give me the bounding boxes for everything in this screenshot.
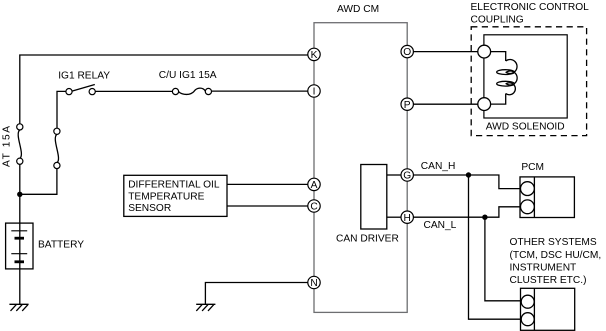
svg-text:H: H <box>404 213 411 224</box>
svg-text:(TCM, DSC HU/CM,: (TCM, DSC HU/CM, <box>510 250 602 261</box>
svg-text:BATTERY: BATTERY <box>38 239 84 250</box>
svg-text:COUPLING: COUPLING <box>471 14 524 25</box>
svg-text:CAN DRIVER: CAN DRIVER <box>336 233 399 244</box>
svg-text:SENSOR: SENSOR <box>128 203 171 214</box>
svg-text:CAN_H: CAN_H <box>421 161 456 172</box>
svg-text:G: G <box>403 171 411 182</box>
svg-text:CAN_L: CAN_L <box>424 220 457 231</box>
svg-text:AWD CM: AWD CM <box>337 4 379 15</box>
svg-text:IG1 RELAY: IG1 RELAY <box>58 70 110 81</box>
svg-text:C/U IG1 15A: C/U IG1 15A <box>159 70 217 81</box>
svg-text:CLUSTER ETC.): CLUSTER ETC.) <box>510 275 587 286</box>
svg-text:C: C <box>310 202 317 213</box>
svg-text:N: N <box>310 278 317 289</box>
svg-text:I: I <box>313 87 316 98</box>
svg-text:P: P <box>404 100 411 111</box>
svg-text:OTHER SYSTEMS: OTHER SYSTEMS <box>510 237 597 248</box>
svg-text:PCM: PCM <box>521 162 544 173</box>
svg-text:K: K <box>311 50 318 61</box>
svg-text:DIFFERENTIAL OIL: DIFFERENTIAL OIL <box>128 179 220 190</box>
svg-text:INSTRUMENT: INSTRUMENT <box>510 262 577 273</box>
svg-text:TEMPERATURE: TEMPERATURE <box>128 191 204 202</box>
svg-text:ELECTRONIC CONTROL: ELECTRONIC CONTROL <box>471 2 590 13</box>
svg-text:AWD SOLENOID: AWD SOLENOID <box>486 121 565 132</box>
svg-text:AT 15A: AT 15A <box>2 124 13 167</box>
svg-text:A: A <box>311 180 318 191</box>
svg-text:O: O <box>403 47 411 58</box>
